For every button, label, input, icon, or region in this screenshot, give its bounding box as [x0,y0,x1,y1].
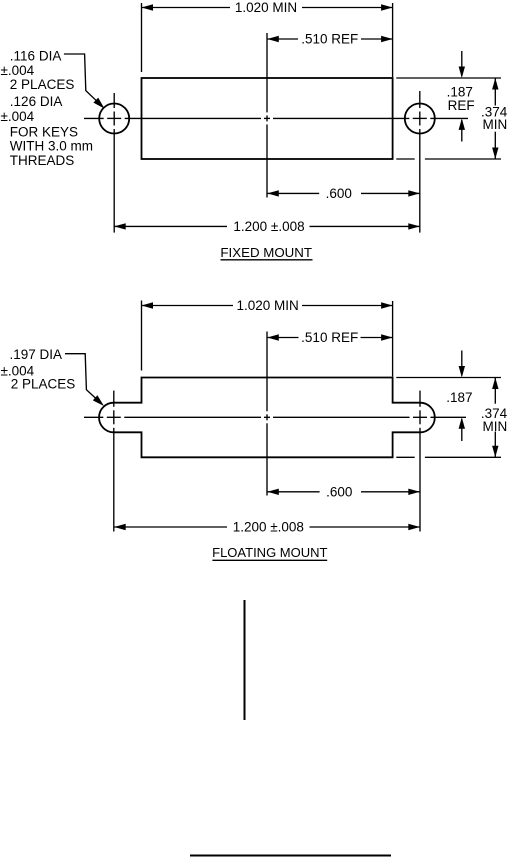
top edge extension right (fixed) [396,77,501,79]
svg-text:.187: .187 [446,390,472,405]
vertical centerline left slot end (floating) [113,391,115,532]
dimension .600 (fixed) [267,186,420,201]
extension line right (floating 1.020/.510) [392,301,394,377]
title FLOATING MOUNT [212,545,327,560]
dimension .510 REF (floating) [267,330,392,345]
title FIXED MOUNT [220,245,312,260]
svg-text:.510 REF: .510 REF [301,330,358,345]
top edge extension right (floating) [396,377,501,379]
svg-text:FOR KEYS: FOR KEYS [10,125,78,140]
dimension 1.200 +/-.008 (fixed) [114,219,420,234]
svg-text:.600: .600 [326,186,352,201]
svg-text:±.004: ±.004 [1,63,35,78]
center extension line (floating) [266,332,268,496]
extension line left (fixed 1.020) [141,3,143,72]
leader line (floating) [65,354,104,406]
dimension .600 (floating) [267,484,420,499]
svg-text:MIN: MIN [483,117,507,132]
dimension .187 (floating) [446,351,472,442]
dimension .187 REF (fixed) [447,51,475,142]
horizontal centerline (fixed) [84,117,468,119]
svg-text:1.200 ±.008: 1.200 ±.008 [233,219,304,234]
svg-text:.600: .600 [326,484,352,499]
svg-text:MIN: MIN [483,419,507,434]
svg-text:1.020 MIN: 1.020 MIN [235,0,297,15]
bottom edge extension right (fixed) [396,158,501,160]
vertical centerline right hole (fixed) [419,91,421,233]
horizontal rule (page bottom) [190,855,391,857]
leader line (fixed) [64,54,105,109]
svg-text:FLOATING MOUNT: FLOATING MOUNT [212,545,327,560]
dimension 1.200 +/-.008 (floating) [114,520,420,535]
svg-text:1.200 ±.008: 1.200 ±.008 [233,520,304,535]
vertical centerline left hole (fixed) [113,93,115,233]
svg-text:.510 REF: .510 REF [301,32,358,47]
fixed mount cutout rectangle [142,78,393,159]
dimension .374 MIN (floating) [481,378,507,458]
left mounting hole (fixed) [99,104,129,134]
svg-text:.126 DIA: .126 DIA [10,94,63,109]
svg-text:2 PLACES: 2 PLACES [11,377,76,392]
svg-text:THREADS: THREADS [10,153,75,168]
floating mount cutout outline [99,378,435,458]
bottom edge extension right (floating) [396,456,501,458]
extension line right (fixed 1.020/.510) [392,3,394,77]
right mounting hole (fixed) [405,104,435,134]
svg-text:.197 DIA: .197 DIA [10,347,63,362]
leader note .116 DIA (fixed) [1,49,94,169]
svg-text:±.004: ±.004 [1,109,35,124]
dimension 1.020 MIN (floating) [142,298,393,313]
vertical centerline right slot end (floating) [419,391,421,532]
extension line left (floating 1.020) [141,301,143,371]
dimension .510 REF (fixed) [267,32,392,47]
horizontal centerline (floating) [84,416,466,418]
dimension 1.020 MIN (fixed) [142,0,393,15]
center extension line (fixed) [266,33,268,198]
svg-text:FIXED MOUNT: FIXED MOUNT [220,245,312,260]
svg-text:REF: REF [448,98,475,113]
dimension .374 MIN (fixed) [481,78,507,159]
svg-text:2 PLACES: 2 PLACES [10,77,75,92]
svg-text:.116 DIA: .116 DIA [10,49,62,64]
svg-text:1.020 MIN: 1.020 MIN [236,298,298,313]
vertical rule (lower page) [244,600,246,720]
leader note .197 DIA (floating) [1,347,76,392]
svg-text:WITH 3.0 mm: WITH 3.0 mm [10,139,93,154]
